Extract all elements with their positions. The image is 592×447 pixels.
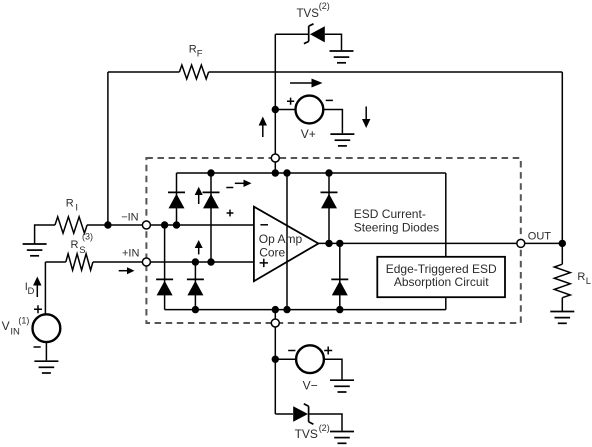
minus mark VIN [34, 346, 41, 348]
diode DA (-IN to V+) [168, 192, 185, 208]
box Edge-Triggered ESD Absorption Circuit [377, 257, 505, 297]
svg-text:D: D [28, 286, 35, 297]
wire feedback top horizontal left [108, 71, 179, 73]
svg-text:L: L [586, 276, 591, 287]
resistor RS [66, 254, 93, 270]
wire TVS top horizontal [275, 33, 308, 35]
wire V- right to ground [324, 359, 342, 379]
wire TVS top to ground [325, 34, 342, 50]
svg-text:ESD Current-: ESD Current- [354, 207, 426, 221]
arrow current down (right of V+) [362, 107, 370, 129]
arrow inner right (top) [235, 180, 252, 187]
plus mark inner [227, 210, 234, 217]
source V- [296, 345, 324, 373]
ground RL [550, 312, 574, 324]
svg-text:−IN: −IN [121, 212, 138, 224]
arrow current right (top) [290, 79, 323, 88]
wire bottom supply stub [274, 310, 276, 319]
wire TVS bottom to ground [309, 414, 342, 431]
svg-text:I: I [75, 203, 78, 214]
junction dots output line [325, 240, 332, 247]
diode DF (V- to OUT) [331, 279, 348, 295]
wire TVS branch vertical [274, 34, 276, 154]
ground TVS top [330, 51, 354, 63]
node V+ pin [271, 154, 279, 162]
plus mark V+ [287, 98, 294, 105]
svg-text:(3): (3) [82, 232, 93, 242]
minus mark op-amp [260, 224, 268, 226]
source V+ [296, 96, 324, 124]
node OUT [517, 239, 525, 247]
wire -IN line [151, 224, 254, 226]
node dot feedback/-IN [104, 221, 111, 228]
wire RI left [35, 225, 55, 244]
label TVS(2) bottom [295, 423, 330, 441]
plus mark VIN [34, 305, 42, 313]
wire bottom rail [165, 309, 446, 311]
diode DE (OUT to V+) [321, 192, 338, 208]
wire feedback top horizontal right [209, 71, 563, 73]
wire V+ left [275, 109, 295, 111]
junction dots +IN line [192, 258, 199, 265]
arrow inner up (mid) [195, 240, 203, 254]
wire V- branch vertical top [274, 327, 276, 414]
minus mark V+ [326, 99, 333, 101]
wire diode column D [194, 262, 196, 310]
wire RL top [561, 243, 563, 264]
svg-text:Edge-Triggered ESD: Edge-Triggered ESD [386, 262, 497, 276]
svg-text:R: R [66, 198, 74, 210]
diode DD (V- to +IN) [187, 279, 204, 295]
plus mark V- [324, 347, 332, 355]
wire diode column B [210, 173, 212, 262]
wire OUT to RL junction [525, 242, 562, 244]
wire right vertical to box [445, 173, 447, 257]
node +IN [142, 258, 150, 266]
arrow ID up [33, 277, 41, 298]
node V- pin [271, 319, 279, 327]
TVS diode D2 bottom [293, 404, 313, 424]
wire TVS bottom horizontal [275, 413, 293, 415]
svg-text:(2): (2) [319, 1, 330, 11]
wire RS left [45, 261, 65, 263]
wire diode column A [176, 173, 178, 225]
wire diode column C [164, 225, 166, 310]
plus mark op-amp [260, 259, 268, 267]
svg-text:TVS: TVS [295, 427, 318, 441]
svg-text:OUT: OUT [528, 230, 552, 242]
wire VIN vertical [44, 262, 46, 314]
junction dots -IN line [161, 221, 168, 228]
wire top supply stub [274, 162, 276, 173]
svg-text:Absorption Circuit: Absorption Circuit [394, 275, 489, 289]
node dot V- tap [272, 356, 279, 363]
diode DC (V- to -IN) [156, 279, 173, 295]
ground V- [330, 380, 354, 392]
svg-text:(2): (2) [319, 423, 330, 433]
wire RL bottom [561, 298, 563, 311]
TVS diode D1 top [304, 24, 325, 44]
node dot V+ tap [272, 106, 279, 113]
svg-text:R: R [189, 43, 197, 55]
resistor RI [55, 217, 87, 233]
svg-text:TVS: TVS [297, 8, 320, 20]
wire RI to -IN [87, 224, 142, 226]
wire feedback right vertical [561, 72, 563, 243]
wire +IN line [151, 261, 254, 263]
ground VIN [34, 361, 58, 373]
diode DB (+IN to V+) [203, 192, 220, 208]
ground TVS bottom [330, 432, 354, 444]
ground V+ [330, 134, 354, 146]
wire diode column F [339, 243, 341, 309]
label ESD Current-Steering Diodes [354, 207, 439, 234]
resistor RL [554, 264, 570, 298]
svg-text:R: R [577, 271, 585, 283]
svg-text:V: V [2, 319, 10, 333]
junction dots top rail [207, 169, 214, 176]
wire V- left [275, 358, 296, 360]
svg-text:Core: Core [259, 246, 285, 260]
wire RS to +IN [93, 261, 142, 263]
label ID [25, 281, 35, 297]
arrow inner up (top pair) [195, 187, 203, 204]
svg-text:+IN: +IN [122, 247, 139, 259]
dashed ESD cell boundary [146, 158, 520, 323]
svg-text:R: R [71, 239, 79, 251]
resistor RF [179, 65, 208, 79]
svg-text:IN: IN [10, 327, 20, 338]
label VIN(1) [2, 316, 30, 338]
op-amp U1 [254, 207, 319, 282]
label RS(3) [71, 232, 94, 256]
minus mark inner top [226, 187, 233, 189]
node dot OUT/RL [559, 240, 566, 247]
wire diode column E [328, 173, 330, 243]
svg-text:V+: V+ [301, 127, 316, 141]
node -IN [142, 221, 150, 229]
label Op Amp Core [259, 232, 303, 260]
svg-text:(1): (1) [18, 316, 29, 326]
label TVS(2) top [297, 1, 330, 20]
svg-text:Steering Diodes: Steering Diodes [354, 221, 439, 235]
wire VIN to ground [45, 342, 47, 360]
arrow current right (+IN) [119, 267, 135, 274]
wire box bottom to rail [445, 297, 447, 309]
junction dots bottom rail [192, 306, 199, 313]
wire through supply line [286, 173, 288, 310]
minus mark V- [288, 350, 295, 352]
wire top rail [177, 172, 446, 174]
svg-text:S: S [79, 245, 85, 256]
arrow current up (left of V+) [259, 117, 267, 138]
svg-text:V−: V− [303, 379, 318, 393]
wire V+ right to ground [323, 110, 342, 134]
wire feedback left vertical [107, 72, 109, 225]
ground RI [23, 244, 47, 256]
source VIN [33, 314, 61, 342]
svg-text:F: F [197, 49, 203, 60]
wire output line [318, 242, 516, 244]
svg-text:Op Amp: Op Amp [259, 232, 303, 246]
